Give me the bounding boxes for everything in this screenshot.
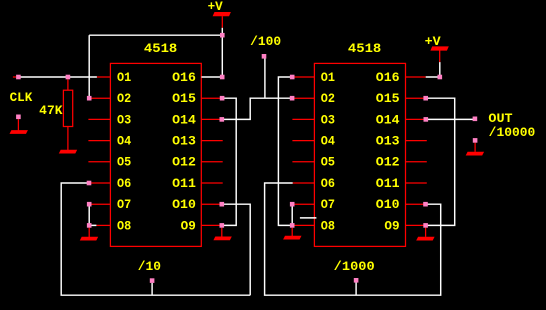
U2 pin 11 stub	[406, 182, 427, 184]
wire +V rail top horizontal	[89, 34, 222, 36]
svg-text:/10000: /10000	[489, 126, 536, 140]
U1 pin 14 stub	[201, 118, 222, 120]
junction U2 pin 8	[290, 223, 295, 228]
U1 pin 4 stub	[88, 140, 110, 142]
resistor R1 top lead	[67, 79, 69, 90]
U2 pin 4 stub	[292, 140, 314, 142]
wire U1 pin 16 stub overdraw	[201, 76, 222, 78]
junction U1 pin 2	[87, 96, 92, 101]
power stub +V left	[221, 16, 223, 28]
svg-text:+V: +V	[208, 0, 224, 14]
wire U2 pin 16 to +V	[426, 62, 440, 77]
node OUT ground terminal	[473, 138, 478, 143]
wire /10 net U1 pin 10 down	[222, 204, 250, 295]
ground stub U1 pin 9	[221, 228, 223, 237]
ground U2 pin 8	[283, 236, 301, 240]
U1 pin 12 stub	[201, 161, 222, 163]
svg-text:O14: O14	[172, 113, 196, 127]
svg-text:+V: +V	[425, 35, 441, 49]
svg-text:O11: O11	[172, 177, 196, 191]
IC U1 4518 body	[110, 63, 201, 246]
svg-text:4518: 4518	[144, 42, 177, 56]
U1 pin 11 stub	[201, 182, 222, 184]
svg-text:O14: O14	[376, 113, 400, 127]
ground U2 pin 9	[416, 237, 434, 241]
junction U2 pin 10	[423, 202, 428, 207]
junction U2 pin 7	[290, 202, 295, 207]
svg-text:O12: O12	[376, 156, 400, 170]
svg-text:O3: O3	[321, 113, 335, 127]
svg-text:O6: O6	[117, 177, 131, 191]
U2 pin 3 stub	[292, 118, 314, 120]
node /100 terminal	[262, 54, 267, 59]
svg-text:O1: O1	[117, 71, 132, 85]
power stub +V right	[439, 50, 441, 62]
svg-text:O7: O7	[321, 198, 335, 212]
ground stub U1 pin 8	[88, 228, 90, 237]
wire /10 label stub	[151, 283, 153, 295]
svg-text:O2: O2	[321, 92, 335, 106]
svg-text:O2: O2	[117, 92, 131, 106]
power bar +V right	[430, 46, 448, 50]
svg-text:O4: O4	[117, 135, 132, 149]
U1 pin 6 stub	[88, 182, 110, 184]
U2 pin 2 stub	[292, 97, 314, 99]
svg-text:O10: O10	[172, 198, 196, 212]
svg-text:47K: 47K	[39, 104, 63, 118]
svg-text:O6: O6	[321, 177, 335, 191]
wire /100 net U1 pin 14 to U2 pin 2	[222, 98, 292, 119]
junction U1 pin 10	[220, 202, 225, 207]
node OUT terminal	[473, 117, 478, 122]
svg-text:O7: O7	[117, 198, 131, 212]
svg-text:/10: /10	[138, 260, 161, 274]
U1 pin 8 stub	[96, 224, 110, 226]
wire CLK net to U1 pin 1	[18, 76, 97, 78]
U2 pin 5 stub	[292, 161, 314, 163]
svg-text:/100: /100	[250, 35, 281, 49]
U2 pin 13 stub	[406, 140, 427, 142]
wire stray segment near U2 pin 8	[300, 217, 317, 219]
ground stub U2 pin 9	[425, 228, 427, 237]
junction U1 pin 14	[220, 117, 225, 122]
junction U1 pin 16	[220, 75, 225, 80]
svg-text:O1: O1	[321, 71, 336, 85]
ground stub below OUT	[474, 143, 476, 152]
U2 pin 16 stub	[406, 76, 426, 78]
resistor R1 bottom lead	[67, 127, 69, 151]
U2 pin 15 stub	[406, 97, 427, 99]
U2 pin 8 stub	[292, 224, 314, 226]
junction resistor R1 top	[66, 75, 71, 80]
svg-text:O16: O16	[376, 71, 400, 85]
wire U2 pin 9 to pin 15 reset net	[426, 98, 455, 225]
svg-text:O5: O5	[321, 156, 335, 170]
ground U1 pin 8	[80, 237, 98, 241]
junction U1 pin 9	[220, 223, 225, 228]
wire U1 pin 15 to ground net	[222, 98, 236, 225]
svg-text:/1000: /1000	[334, 260, 375, 274]
svg-text:CLK: CLK	[10, 91, 33, 105]
U2 pin 1 stub	[292, 76, 314, 78]
wire /10 net bottom run	[61, 183, 250, 295]
ground below resistor R1	[59, 150, 77, 154]
U2 pin 6 stub	[293, 182, 315, 184]
junction +V right	[438, 75, 443, 80]
wire U1 pin 7 to pin 8	[89, 204, 96, 225]
svg-text:O13: O13	[172, 135, 196, 149]
node /10 terminal	[150, 278, 155, 283]
U2 pin 9 stub	[406, 224, 427, 226]
svg-text:O10: O10	[376, 198, 400, 212]
power bar +V left	[213, 12, 231, 16]
U1 pin 7 stub	[88, 203, 110, 205]
svg-text:O5: O5	[117, 156, 131, 170]
CLK terminal tick	[13, 76, 16, 78]
wire OUT net from U2 pin 14	[426, 118, 475, 120]
svg-text:O8: O8	[117, 219, 131, 233]
junction U1 pin 6	[87, 181, 92, 186]
resistor R1 47K body	[63, 90, 72, 126]
U1 pin 9 stub	[201, 224, 222, 226]
U1 pin 15 stub	[201, 97, 222, 99]
ground below CLK	[10, 130, 28, 134]
node CLK terminal	[16, 75, 21, 80]
svg-text:O4: O4	[321, 135, 336, 149]
junction +V left	[220, 33, 225, 38]
svg-text:O9: O9	[384, 219, 399, 233]
svg-text:4518: 4518	[348, 42, 381, 56]
U2 pin 12 stub	[406, 161, 427, 163]
svg-text:O12: O12	[172, 156, 196, 170]
junction U2 pin 15	[423, 96, 428, 101]
junction U2 pin 9	[423, 223, 428, 228]
svg-text:O13: O13	[376, 135, 400, 149]
junction U2 pin 2	[290, 96, 295, 101]
svg-text:O11: O11	[376, 177, 400, 191]
junction U1 pin 7	[87, 202, 92, 207]
U2 pin 7 stub	[292, 203, 314, 205]
ground stub U2 pin 8	[291, 228, 293, 236]
U1 pin 5 stub	[88, 161, 110, 163]
junction U2 pin 1	[290, 75, 295, 80]
U2 pin 14 stub	[406, 118, 427, 120]
wire U2 pin 1 to ground net	[278, 77, 292, 225]
ground stub below CLK	[17, 119, 19, 130]
ground U1 pin 9	[213, 237, 231, 241]
ground below OUT	[466, 152, 484, 156]
svg-text:O15: O15	[376, 92, 400, 106]
U1 pin 3 stub	[88, 118, 110, 120]
U1 pin 13 stub	[201, 140, 222, 142]
junction U2 pin 14	[424, 117, 429, 122]
svg-text:O9: O9	[181, 219, 196, 233]
U2 pin 10 stub	[406, 203, 427, 205]
junction U1 pin 15	[220, 96, 225, 101]
IC U2 4518 body	[314, 63, 405, 246]
wire /100 label stub	[264, 58, 266, 99]
junction U1 pin 8	[87, 223, 92, 228]
svg-text:OUT: OUT	[488, 112, 513, 126]
svg-text:O15: O15	[172, 92, 196, 106]
svg-text:O3: O3	[117, 113, 131, 127]
wire /1000 label stub	[355, 282, 357, 295]
wire U2 pin 7 to pin 8	[291, 204, 293, 225]
svg-text:O16: O16	[172, 71, 196, 85]
U1 pin 10 stub	[201, 203, 222, 205]
svg-text:O8: O8	[321, 219, 335, 233]
node CLK ground terminal	[16, 115, 21, 120]
wire +V rail vertical to U1 pin 2	[88, 35, 90, 98]
wire /1000 net U2 pin 6	[265, 183, 441, 295]
wire +V to U1 pin 16 vertical	[221, 28, 223, 77]
node /1000 terminal	[354, 278, 359, 283]
U1 pin 1 stub	[97, 76, 111, 78]
U1 pin 2 stub	[88, 97, 110, 99]
